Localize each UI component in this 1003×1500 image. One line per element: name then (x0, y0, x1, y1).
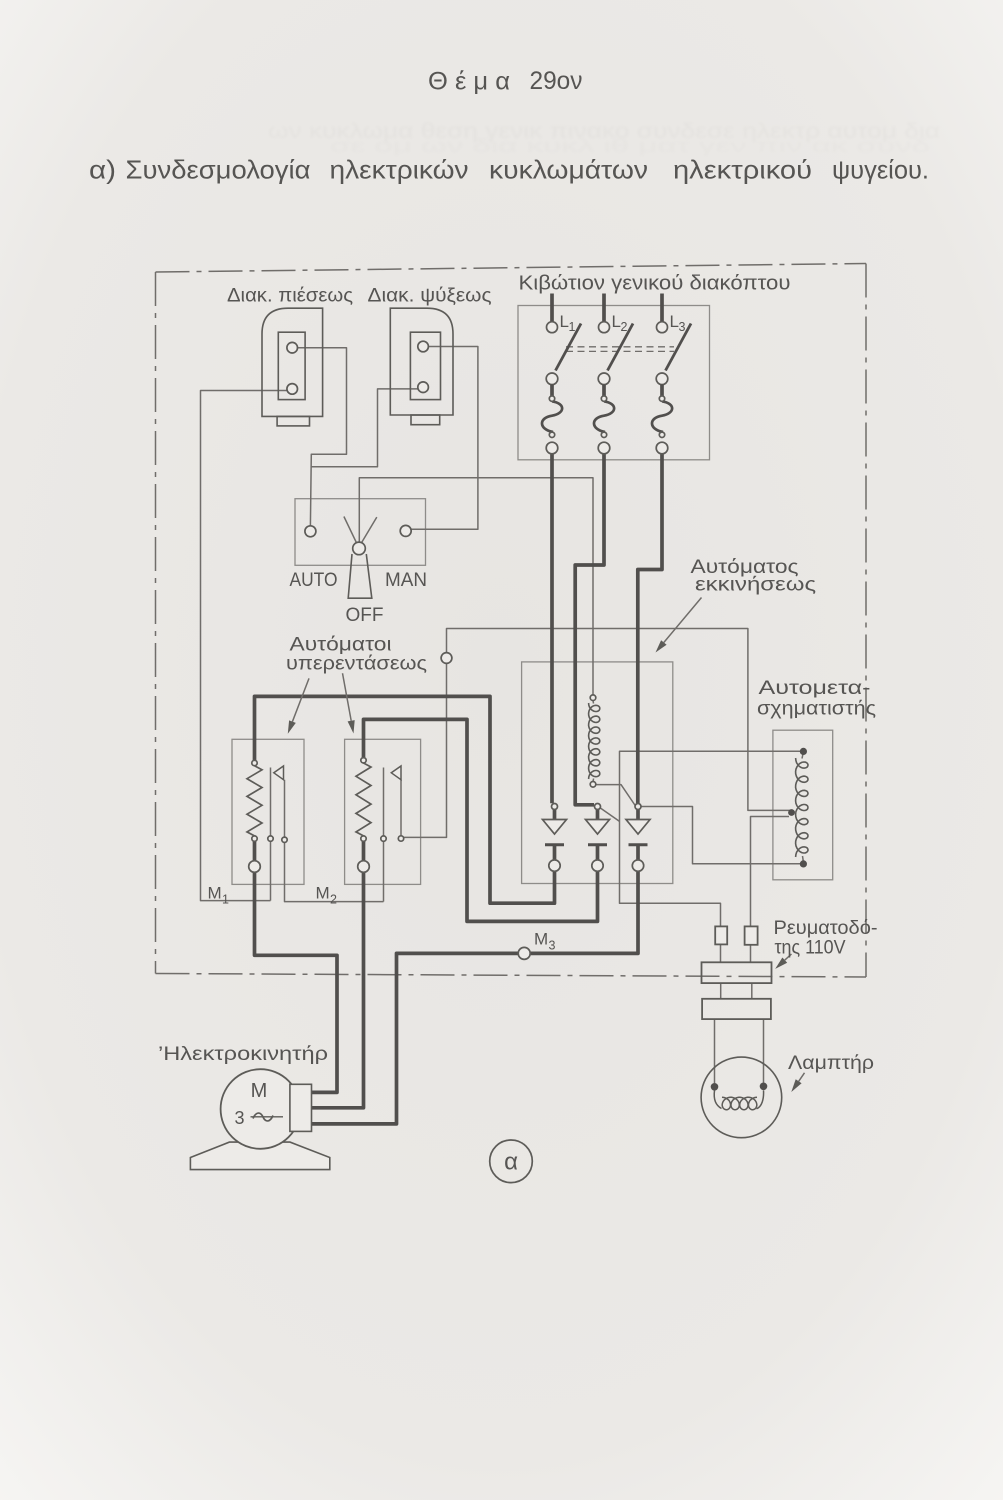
svg-text:1: 1 (222, 893, 229, 907)
svg-text:Κιβώτιον γενικού διακόπτου: Κιβώτιον γενικού διακόπτου (519, 273, 791, 295)
svg-text:α): α) (89, 155, 116, 185)
svg-text:Διακ. ψύξεως: Διακ. ψύξεως (368, 286, 492, 307)
svg-text:M: M (208, 884, 222, 903)
svg-text:ψυγείου.: ψυγείου. (832, 155, 929, 185)
svg-text:α: α (504, 1149, 518, 1176)
svg-text:3: 3 (679, 320, 686, 334)
svg-text:M: M (316, 884, 330, 903)
svg-text:M: M (534, 930, 548, 949)
svg-text:υπερεντάσεως: υπερεντάσεως (286, 654, 427, 675)
svg-text:ηλεκτρικών: ηλεκτρικών (330, 155, 469, 185)
svg-text:AUTO: AUTO (290, 570, 338, 591)
svg-text:3: 3 (549, 939, 556, 953)
svg-text:1: 1 (569, 320, 576, 334)
svg-text:M: M (251, 1080, 268, 1102)
svg-text:Λαμπτήρ: Λαμπτήρ (788, 1053, 874, 1074)
svg-text:Ρευματοδό-: Ρευματοδό- (774, 918, 878, 939)
svg-text:3: 3 (234, 1108, 244, 1128)
svg-text:Θ έ μ α: Θ έ μ α (428, 68, 510, 96)
svg-text:Αυτόματοι: Αυτόματοι (290, 635, 392, 656)
svg-text:2: 2 (330, 893, 337, 907)
svg-text:κυκλωμάτων: κυκλωμάτων (489, 155, 648, 185)
svg-text:της 110V: της 110V (775, 938, 846, 959)
svg-text:MAN: MAN (385, 570, 427, 591)
svg-text:ηλεκτρικού: ηλεκτρικού (673, 155, 812, 185)
svg-text:OFF: OFF (346, 605, 384, 626)
svg-text:29ον: 29ον (530, 67, 583, 95)
svg-text:εκκινήσεως: εκκινήσεως (695, 575, 816, 596)
svg-text:’Ηλεκτροκινητήρ: ’Ηλεκτροκινητήρ (158, 1044, 328, 1065)
svg-text:σχηματιστής: σχηματιστής (757, 699, 876, 720)
svg-text:Αυτομετα-: Αυτομετα- (759, 678, 871, 699)
svg-text:Διακ. πιέσεως: Διακ. πιέσεως (227, 286, 353, 307)
svg-text:2: 2 (621, 320, 628, 334)
svg-text:σε ομ ων δια κυκλ ιθ ματ γεν π: σε ομ ων δια κυκλ ιθ ματ γεν πιν ακ συνδ (330, 136, 930, 156)
svg-text:Συνδεσμολογία: Συνδεσμολογία (126, 155, 311, 185)
